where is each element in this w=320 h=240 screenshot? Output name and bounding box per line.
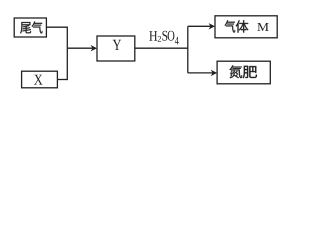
wire arrow shaft into 氮肥: [188, 72, 214, 74]
label S of H2SO4: [162, 31, 167, 41]
wire vertical right junction: [187, 26, 189, 73]
box X: [22, 71, 58, 88]
wire from Y box to right junction (H2SO4 step): [135, 47, 188, 49]
wire vertical left junction: [66, 27, 68, 81]
text 尾 in box 尾气: [20, 22, 31, 33]
text 体 in box 气体M: [236, 20, 249, 32]
text X in box X: [34, 75, 42, 85]
arrowhead into 氮肥: [211, 70, 217, 76]
wire from X box to left junction: [57, 79, 67, 81]
text 氮 in box 氮肥: [229, 65, 242, 78]
label subscript 4 of H2SO4: [175, 37, 179, 45]
label O of H2SO4: [168, 31, 175, 41]
box 氮肥 (nitrogen fertilizer): [217, 61, 270, 84]
wire arrow shaft into Y: [67, 47, 94, 49]
arrowhead into 气体M: [209, 23, 215, 29]
text 气 in box 气体M: [225, 20, 236, 32]
label H of H2SO4: [149, 31, 157, 41]
label subscript 2 of H2SO4: [158, 36, 161, 42]
text Y in box Y: [113, 40, 121, 50]
arrowhead into Y: [91, 45, 97, 51]
text M in box 气体M: [257, 23, 268, 31]
box 尾气 (tail gas): [14, 18, 46, 37]
wire from 尾气 box to left junction: [46, 26, 67, 28]
box Y: [97, 36, 135, 61]
text 肥 in box 氮肥: [243, 66, 257, 78]
text 气 in box 尾气: [32, 21, 43, 33]
box 气体M (gas M): [215, 16, 277, 38]
wire arrow shaft into 气体M: [188, 25, 212, 27]
